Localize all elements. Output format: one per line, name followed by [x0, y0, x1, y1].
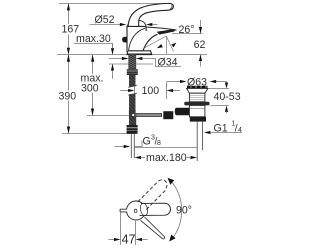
svg-text:100: 100 [142, 85, 160, 97]
label Ø63 with arrows [167, 76, 227, 88]
pop-up waste tailpipe [197, 122, 202, 161]
top view: lever horizontal position [139, 203, 170, 217]
G3/8 threaded pipe end [131, 134, 134, 158]
hose continues below junction [129, 117, 136, 125]
label max.30 with leader [74, 33, 114, 79]
threaded shank below body [129, 55, 136, 69]
svg-text:8: 8 [157, 140, 161, 147]
26 degree construction lines [145, 36, 177, 54]
label G1 1/4 with leader arrow [204, 121, 242, 135]
hose centerline in break gap [134, 86, 136, 94]
svg-text:62: 62 [194, 39, 206, 51]
label max. 300 [81, 72, 104, 94]
faucet body side view [127, 20, 177, 52]
pop-up waste body [189, 105, 205, 116]
label Ø34 with arrows [109, 56, 182, 68]
spout aerator [157, 29, 175, 34]
svg-text:300: 300 [81, 83, 99, 95]
svg-text:max.180: max.180 [146, 152, 187, 164]
dimension max.300 vertical line [91, 55, 94, 116]
dimension 100 [120, 85, 180, 97]
label 62 [194, 39, 206, 51]
label 167 [62, 24, 80, 36]
flexible hose lower segment [128, 93, 137, 109]
top reference line (overall height datum) [59, 3, 167, 5]
counter bottom line [109, 63, 153, 65]
coupling block on horizontal hose [163, 111, 173, 119]
spout level reference line (62 top datum) [172, 33, 203, 35]
svg-text:G: G [143, 136, 151, 148]
junction cross with horizontal hose [129, 110, 162, 117]
svg-text:40-53: 40-53 [214, 91, 241, 103]
pop-up waste flange cone [187, 88, 208, 93]
label 90 degrees [176, 205, 192, 217]
mounting nut [127, 69, 138, 75]
svg-text:47: 47 [122, 233, 136, 247]
label 26 degrees [179, 24, 195, 36]
dimension 62 arrows [199, 20, 202, 67]
faucet base escutcheon [127, 51, 152, 55]
top view: left outlet stub [120, 209, 127, 212]
top view: faucet body circle [127, 201, 146, 220]
pop-up waste side knob [175, 108, 190, 115]
label Ø52 with leader arrow [90, 14, 158, 26]
svg-text:26°: 26° [179, 24, 195, 36]
svg-text:4: 4 [238, 127, 242, 134]
dimension 167 vertical line [67, 3, 70, 54]
lever handle side view [128, 3, 173, 26]
G3/8 connection nut [127, 125, 138, 134]
90 degree swing arc [168, 178, 182, 242]
flexible hose upper segment [128, 75, 137, 87]
max.300 bottom reference line [87, 115, 129, 117]
pop-up waste sealing washer [184, 102, 209, 106]
svg-text:Ø34: Ø34 [158, 56, 178, 68]
svg-text:390: 390 [59, 90, 77, 102]
pop-up waste neck [189, 93, 205, 102]
dimension 40-53 [209, 82, 241, 114]
dimension max.180 [135, 152, 198, 164]
dimension 47 [109, 213, 148, 247]
top view: lever raised position dashed [138, 180, 167, 210]
svg-text:90°: 90° [176, 205, 192, 217]
bottom reference line (390 datum) [62, 133, 136, 135]
label 390 [59, 90, 77, 102]
reference line between pipes [135, 147, 197, 149]
mounting surface line [57, 54, 207, 56]
svg-text:G1: G1 [214, 123, 228, 135]
pop-up waste grate top [187, 86, 208, 89]
dimension 390 vertical line [67, 55, 70, 134]
top view: lever lowered thin position [141, 217, 165, 239]
side outlet knob (left of body) [122, 37, 127, 43]
vertical reference line right of 100 [166, 82, 168, 100]
label G3/8 with leader arrow [115, 135, 162, 149]
pop-up waste bottom nut [190, 117, 206, 122]
